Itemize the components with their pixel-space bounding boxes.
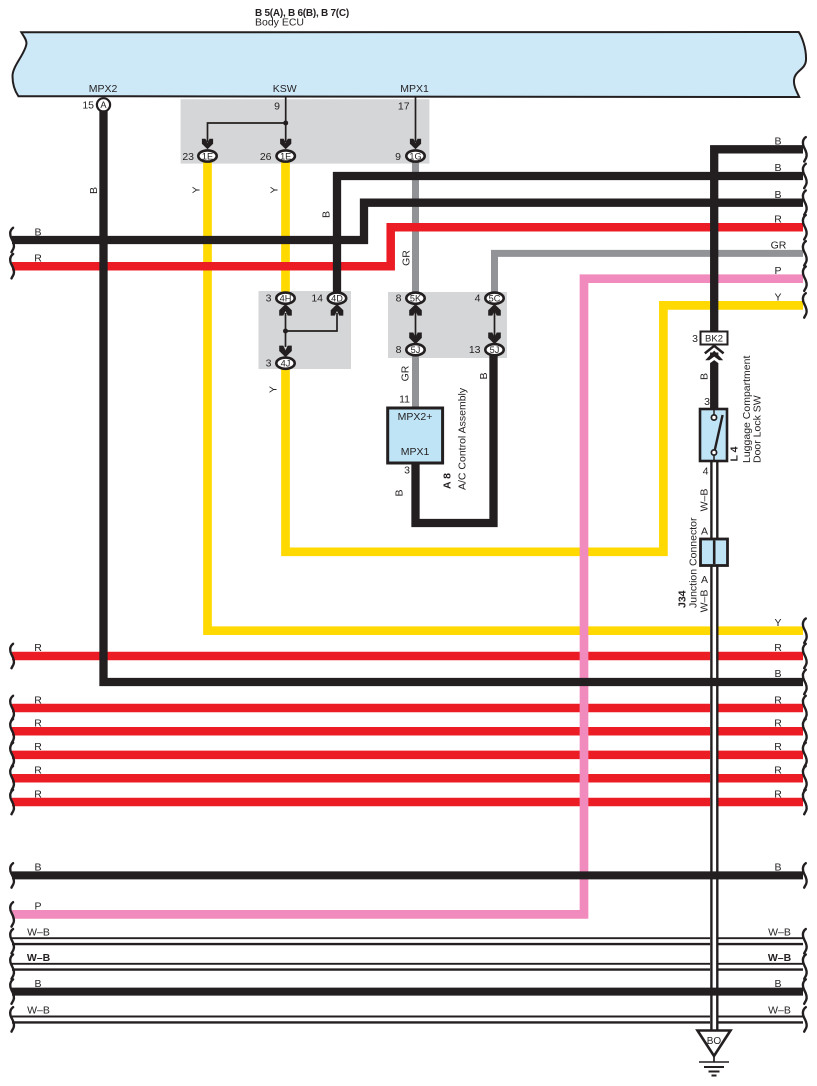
svg-text:B: B	[478, 372, 490, 379]
svg-text:5J: 5J	[490, 345, 500, 355]
wire Y from 1E pin26 down through 4H/4J, right, up, right exit	[281, 158, 290, 294]
svg-text:3: 3	[704, 396, 710, 408]
wire break mark left R y708	[10, 696, 14, 720]
svg-text:A: A	[701, 526, 708, 538]
connector shield box (1E/1G area)	[181, 99, 430, 163]
arrow down into 4J	[279, 346, 292, 358]
svg-text:BO: BO	[707, 1036, 722, 1047]
wire break mark right B y875	[803, 863, 807, 887]
svg-text:MPX1: MPX1	[401, 446, 430, 458]
wire break mark left R y266	[10, 254, 14, 278]
wire W-B row (y967)	[12, 964, 803, 970]
svg-text:B: B	[88, 187, 100, 194]
svg-text:A 8: A 8	[442, 473, 454, 489]
wire break mark right B y992	[803, 979, 807, 1003]
svg-text:P: P	[774, 265, 781, 277]
svg-text:Y: Y	[191, 186, 203, 193]
svg-text:W–B: W–B	[768, 1005, 791, 1017]
svg-text:B: B	[774, 162, 781, 174]
link 4H junction to 4D and 4J	[286, 313, 338, 347]
arrow down into 1E pin26	[280, 139, 291, 150]
wire break mark right R y708	[803, 696, 807, 720]
ground BO	[698, 1031, 731, 1057]
arrow up into 4H	[279, 304, 292, 316]
svg-text:Y: Y	[268, 386, 280, 393]
svg-text:B: B	[34, 226, 41, 238]
svg-text:B: B	[774, 978, 781, 990]
svg-text:W–B: W–B	[27, 1005, 50, 1017]
wire break mark left R y755	[10, 743, 14, 767]
wire W-B row (y1019)	[12, 1017, 803, 1023]
KSW pin 9 lead and branch	[208, 96, 286, 142]
svg-text:B: B	[774, 668, 781, 680]
arrow up into 4D	[331, 304, 344, 316]
wire break mark left W-B y1019	[10, 1007, 14, 1031]
svg-text:R: R	[34, 642, 42, 654]
wire GR from 5J down to A/C assembly pin 11	[412, 352, 419, 410]
wire break mark right W-B y967	[803, 955, 807, 979]
svg-text:W–B: W–B	[27, 927, 50, 939]
svg-text:13: 13	[469, 344, 481, 356]
svg-text:R: R	[774, 642, 782, 654]
wire break mark right R y755	[803, 743, 807, 767]
svg-text:23: 23	[182, 151, 194, 163]
svg-text:B: B	[321, 211, 333, 218]
wire B from BK2 up then right exit at y149	[714, 149, 803, 331]
svg-text:3: 3	[404, 465, 410, 477]
wire B row across (y875)	[12, 871, 803, 879]
wire W-B vertical from L4 pin4 through J34 to ground	[711, 461, 717, 1031]
wire R row across (y778)	[12, 774, 803, 783]
wire B from A/C pin3 down, right, up to 5J pin13	[416, 352, 494, 523]
svg-text:W–B: W–B	[768, 952, 792, 964]
svg-text:5J: 5J	[411, 345, 421, 355]
svg-text:W–B: W–B	[699, 489, 711, 512]
svg-text:W–B: W–B	[768, 927, 791, 939]
arrow up into 5C	[488, 304, 501, 316]
wire B from MPX2 pin15 down then right exit	[104, 111, 804, 682]
svg-text:P: P	[34, 901, 41, 913]
wire break mark right R y802	[803, 790, 807, 814]
wire break mark left B y240	[10, 228, 14, 252]
wire break mark right B y203	[803, 191, 807, 215]
svg-text:Door Lock SW: Door Lock SW	[752, 395, 764, 463]
svg-text:5K: 5K	[410, 294, 422, 304]
wire break mark left P y914	[10, 902, 14, 926]
link 5C to 5J	[494, 304, 496, 344]
svg-text:MPX2: MPX2	[89, 83, 118, 95]
wire break mark right R y731	[803, 719, 807, 743]
wire B left edge, up at x364, right exit at y203	[12, 203, 803, 240]
wire P from right exit, left, down, left to left edge	[12, 279, 803, 915]
wire R row across (y731)	[12, 727, 803, 736]
svg-text:9: 9	[274, 101, 280, 113]
svg-text:4J: 4J	[281, 359, 291, 369]
svg-text:9: 9	[395, 151, 401, 163]
svg-text:1E: 1E	[202, 152, 213, 162]
wire R row across (y802)	[12, 798, 803, 807]
wire break mark left R y778	[10, 766, 14, 790]
svg-text:MPX1: MPX1	[400, 83, 429, 95]
svg-text:8: 8	[396, 293, 402, 305]
wire break mark left B y875	[10, 863, 14, 887]
svg-text:Body ECU: Body ECU	[255, 17, 304, 29]
wire break mark right R y656	[803, 644, 807, 668]
wire R row across (y656)	[12, 652, 803, 661]
svg-text:R: R	[34, 253, 42, 265]
wire break mark right GR y253	[803, 241, 807, 265]
wire break mark right Y y631	[803, 619, 807, 643]
wire W-B row (y941)	[12, 938, 803, 944]
wire R row across (y755)	[12, 751, 803, 760]
wire break mark left R y656	[10, 644, 14, 668]
wire break mark right W-B y1019	[803, 1007, 807, 1031]
svg-text:R: R	[34, 788, 42, 800]
wire Y from 1E pin23 down then right exit	[208, 158, 804, 631]
svg-text:GR: GR	[771, 240, 787, 252]
wire R row across (y708)	[12, 704, 803, 713]
svg-text:R: R	[774, 214, 782, 226]
arrow down into 1E pin23	[202, 139, 213, 150]
svg-text:GR: GR	[401, 250, 413, 266]
svg-text:R: R	[774, 765, 782, 777]
arrow down into 5J pin13	[488, 333, 501, 345]
svg-text:3: 3	[266, 293, 272, 305]
wire break mark left R y731	[10, 719, 14, 743]
svg-text:1G: 1G	[409, 152, 421, 162]
wire break mark right R y778	[803, 766, 807, 790]
svg-text:14: 14	[311, 293, 323, 305]
wire R left edge to corner up then right exit	[12, 227, 803, 266]
svg-text:B: B	[699, 373, 711, 380]
wire break mark left B y992	[10, 979, 14, 1003]
svg-text:4: 4	[475, 293, 481, 305]
svg-text:4D: 4D	[331, 294, 343, 304]
wire break mark right B y682	[803, 670, 807, 694]
svg-text:1E: 1E	[280, 152, 291, 162]
wire B row across (y992)	[12, 988, 803, 996]
svg-text:R: R	[774, 788, 782, 800]
svg-text:3: 3	[692, 333, 698, 345]
svg-text:MPX2+: MPX2+	[398, 411, 433, 423]
svg-text:B: B	[774, 189, 781, 201]
wire GR from 1G down to 5K	[412, 158, 419, 296]
svg-text:W–B: W–B	[27, 952, 51, 964]
connector shield box (5K/5C/5J area)	[388, 292, 507, 358]
svg-text:B: B	[774, 136, 781, 148]
arrow down into 5J pin8	[409, 333, 422, 345]
svg-text:GR: GR	[400, 365, 412, 381]
wire break mark right B y176	[803, 164, 807, 188]
connector shield box (4H/4D/4J area)	[259, 291, 352, 369]
wire break mark left R y802	[10, 790, 14, 814]
arrow up into 5K	[409, 304, 422, 316]
wire break mark left W-B y967	[10, 955, 14, 979]
svg-text:A: A	[701, 574, 708, 586]
wire break mark right W-B y941	[803, 929, 807, 953]
wire break mark right Y y305	[803, 293, 807, 317]
svg-text:B: B	[34, 862, 41, 874]
junction node below 4H	[283, 329, 288, 334]
svg-text:8: 8	[396, 344, 402, 356]
svg-text:R: R	[774, 718, 782, 730]
svg-text:Y: Y	[774, 617, 781, 629]
male arrow below BK2	[705, 346, 723, 365]
svg-text:L 4: L 4	[729, 446, 741, 461]
svg-text:R: R	[774, 741, 782, 753]
link 5K to 5J	[415, 304, 417, 344]
svg-text:BK2: BK2	[705, 334, 723, 345]
svg-text:Y: Y	[269, 186, 281, 193]
svg-text:W–B: W–B	[699, 590, 711, 613]
svg-text:R: R	[34, 694, 42, 706]
wire break mark right B y149	[803, 137, 807, 161]
svg-text:Y: Y	[774, 292, 781, 304]
svg-text:17: 17	[398, 101, 410, 113]
wire B from BK2 bottom down to L4 switch pin 3	[710, 353, 718, 411]
svg-text:R: R	[34, 741, 42, 753]
svg-text:3: 3	[266, 358, 272, 370]
svg-text:B: B	[774, 862, 781, 874]
wire break mark left W-B y941	[10, 929, 14, 953]
wire break mark right R y227	[803, 215, 807, 239]
svg-text:5C: 5C	[489, 294, 501, 304]
svg-text:B: B	[394, 489, 406, 496]
junction node on KSW lead	[283, 121, 288, 126]
svg-text:R: R	[34, 765, 42, 777]
svg-text:R: R	[774, 694, 782, 706]
svg-text:11: 11	[399, 394, 410, 406]
svg-text:26: 26	[260, 151, 272, 163]
svg-text:4: 4	[703, 466, 709, 478]
wire break mark right P y279	[803, 267, 807, 291]
svg-text:KSW: KSW	[273, 83, 297, 95]
MPX1 pin 17 lead	[415, 96, 417, 142]
wire GR from 5C up then right exit	[495, 253, 804, 296]
svg-text:B: B	[34, 978, 41, 990]
svg-text:15: 15	[82, 100, 94, 112]
svg-text:R: R	[34, 718, 42, 730]
svg-text:4H: 4H	[280, 294, 292, 304]
arrow down into 1G pin9	[410, 139, 421, 150]
svg-text:A/C Control Assembly: A/C Control Assembly	[457, 387, 469, 490]
wire B from corner x337 down to 4D, right exit at y176	[337, 176, 803, 296]
Body ECU block	[13, 32, 807, 97]
svg-text:A: A	[100, 100, 107, 110]
